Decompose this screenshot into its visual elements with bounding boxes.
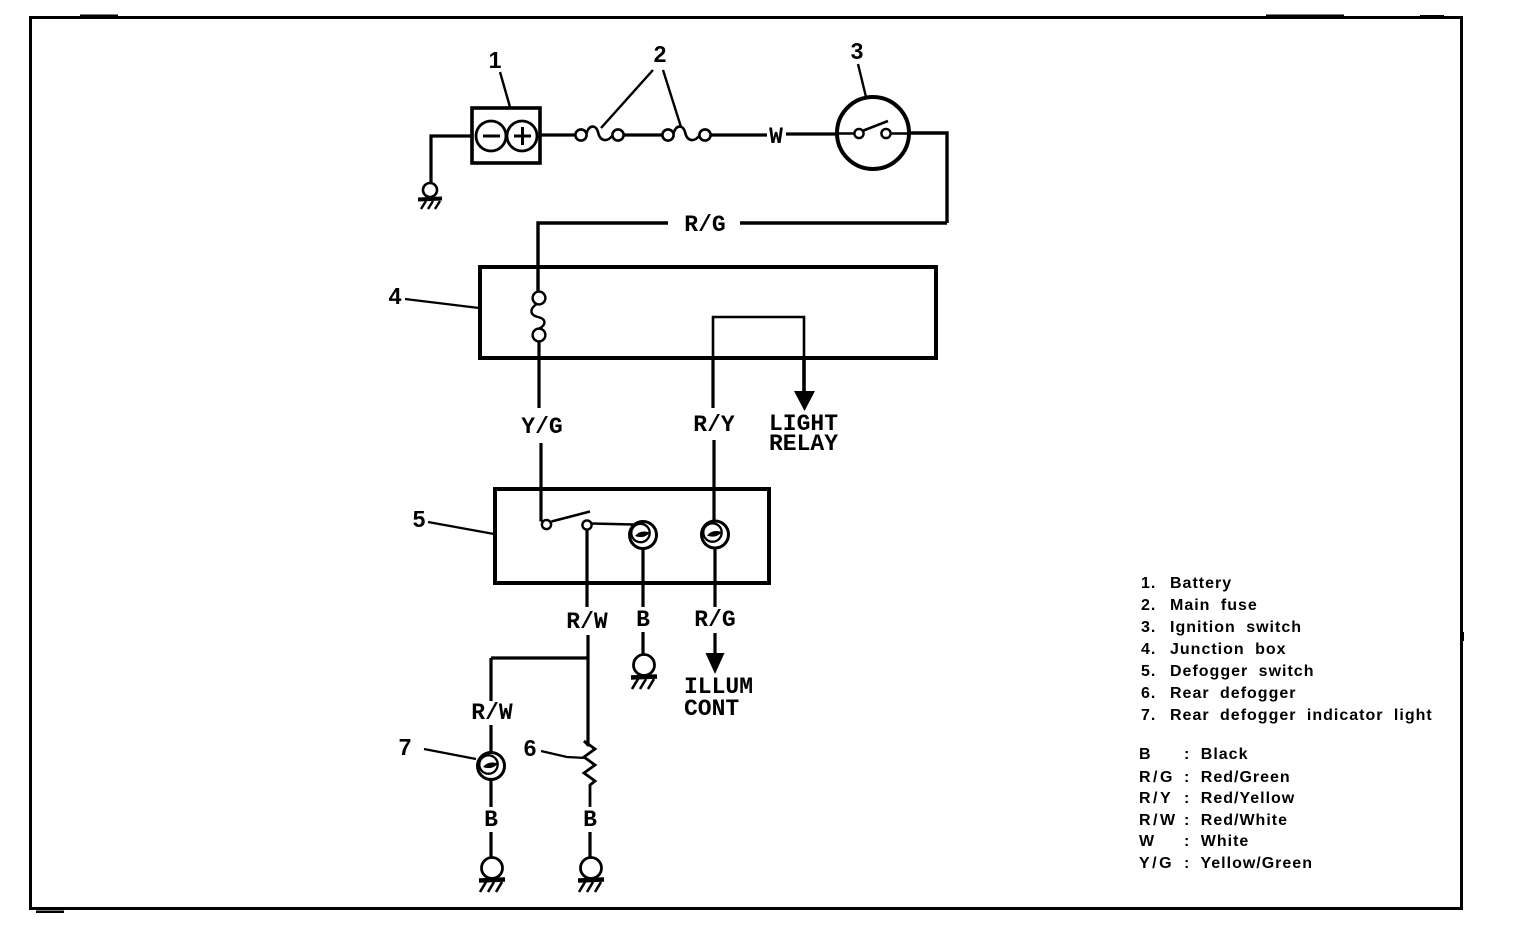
svg-text:: White: : White [1184,833,1249,850]
svg-text:: Red/White: : Red/White [1184,812,1288,829]
ground G4 (defogger) [578,858,604,893]
junction horizontal [491,656,588,659]
legend wire colors [1139,746,1313,872]
svg-text:Ignition switch: Ignition switch [1170,619,1302,636]
legend list [1141,575,1433,724]
leader 7 [424,749,476,759]
ground G2 (switch) [631,655,657,690]
wire ignition to corner [908,133,947,223]
lamp L2 [702,521,729,548]
svg-text:B: B [583,807,597,833]
svg-text:: Red/Green: : Red/Green [1184,769,1291,786]
svg-text:Y/G: Y/G [521,414,562,440]
wire B to ground right [588,832,591,858]
svg-text:R/W: R/W [1139,812,1178,829]
svg-text:Main fuse: Main fuse [1170,597,1258,614]
svg-text:Junction box: Junction box [1170,641,1287,658]
junction box internal branch [713,317,804,357]
svg-text:6: 6 [524,735,537,761]
main fuse F2 [662,127,710,141]
svg-text:: Red/Yellow: : Red/Yellow [1184,790,1295,807]
svg-text:4: 4 [389,283,402,309]
svg-text:CONT: CONT [684,696,739,722]
arrow light relay [794,391,815,411]
svg-text:R/W: R/W [471,700,513,726]
svg-text:: Yellow/Green: : Yellow/Green [1184,855,1313,872]
wire Y/G upper [537,341,540,408]
svg-text:Rear defogger: Rear defogger [1170,685,1296,702]
svg-text:R/G: R/G [694,607,735,633]
leader 4 [405,299,479,308]
svg-text:R/Y: R/Y [693,412,735,438]
svg-text:Defogger switch: Defogger switch [1170,663,1314,680]
svg-text:1: 1 [489,47,502,73]
wire left branch upper [489,658,492,701]
wire R/G left segment [538,223,668,292]
wire F1 to F2 [624,133,664,136]
svg-text:Y/G: Y/G [1139,855,1174,872]
wire lamp L1 to B [641,549,644,608]
leader 2a [601,70,653,128]
wire R/W upper [585,530,588,608]
svg-text:B: B [1139,746,1153,763]
svg-text:2.: 2. [1141,597,1156,614]
svg-text:3.: 3. [1141,619,1156,636]
leader 3 [858,64,866,97]
wire R/Y lower [712,440,715,521]
battery 1 [472,108,540,163]
leader 2b [663,70,681,127]
svg-text:1.: 1. [1141,575,1156,592]
switch contact B [582,520,591,529]
wire to lamp 7 [489,725,492,753]
ignition switch 3 [837,97,909,169]
switch contact A [542,520,551,529]
svg-text:: Black: : Black [1184,746,1248,763]
svg-text:W: W [1139,833,1157,850]
wire contact B to lamp L1 [592,524,633,525]
resistor 6 (rear defogger) [584,741,595,807]
svg-text:R/G: R/G [1139,769,1175,786]
svg-text:5.: 5. [1141,663,1156,680]
wire lamp7 to B [489,780,492,808]
svg-text:R/Y: R/Y [1139,790,1173,807]
wire F2 to W [711,133,768,136]
svg-text:Battery: Battery [1170,575,1232,592]
wire to light relay arrow [802,357,806,392]
junction box 4 [480,267,936,358]
leader 6 [541,751,586,758]
svg-text:3: 3 [851,38,864,64]
wire B to ground [641,632,644,655]
leader 1 [500,72,510,107]
wire battery to ground [431,136,472,183]
svg-text:R/G: R/G [684,212,725,238]
wire B to ground left [489,832,492,858]
svg-text:RELAY: RELAY [769,431,838,457]
wire R/Y upper [711,357,714,408]
wire lamp L2 to R/G [713,548,716,607]
svg-text:W: W [769,124,783,150]
main fuse F1 [575,127,623,141]
svg-text:B: B [636,607,650,633]
leader 5 [428,522,494,534]
wire R/G to arrow [713,633,716,654]
svg-text:4.: 4. [1141,641,1156,658]
wire Y/G lower [539,443,542,522]
ground G1 (battery) [418,183,442,209]
svg-text:6.: 6. [1141,685,1156,702]
lamp 7 [478,753,505,780]
svg-text:7.: 7. [1141,707,1156,724]
wire R/G right segment [740,221,947,224]
svg-text:Rear defogger indicator light: Rear defogger indicator light [1170,707,1433,724]
junction box fuse [531,292,545,342]
wire W to ignition [786,132,838,135]
svg-text:7: 7 [399,734,412,760]
arrow illum cont [706,653,725,674]
switch blade [552,512,591,522]
svg-text:2: 2 [654,41,667,67]
wire battery to fuse [540,133,576,136]
svg-text:R/W: R/W [566,609,608,635]
svg-text:B: B [484,807,498,833]
defogger switch box 5 [495,489,769,583]
lamp L1 [630,522,657,549]
wire R/W to junction [586,635,589,746]
svg-text:5: 5 [413,506,426,532]
ground G3 (lamp 7) [479,858,505,893]
